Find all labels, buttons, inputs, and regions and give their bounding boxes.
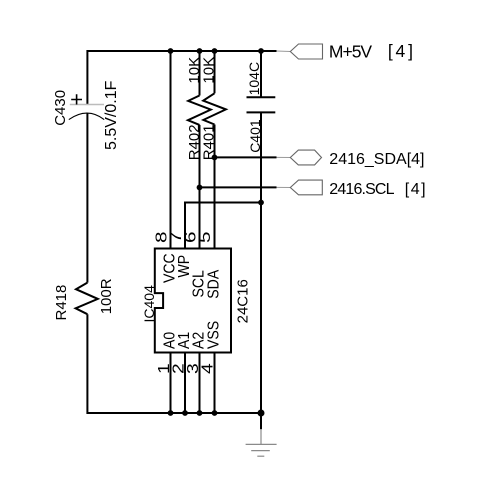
wire: IC pin2 A1 to bottom rail [184,353,186,414]
junction node SDA at R401 bottom [212,155,218,161]
svg-text:4: 4 [198,363,216,374]
grey lead wire to 2416.SCL tag [277,186,291,188]
svg-text:[4]: [4] [388,41,416,61]
wire: left vertical upper + top rail [87,51,276,104]
svg-text:2416.SCL: 2416.SCL [329,181,394,198]
wire: pin8 VCC vertical to top rail [170,51,172,249]
junction bottom rail pin4 [212,410,218,416]
port tag 2416_SDA (hexagon) [290,150,321,165]
wire: IC pin3 A2 to bottom rail [199,353,201,414]
wire: pin5 SDA vertical upper (rail to R401) [214,51,216,93]
capacitor C430 plus sign [71,94,82,104]
svg-text:C430: C430 [52,90,69,126]
junction bottom rail pin1 [168,410,174,416]
junction node SCL at R402 bottom [197,185,203,191]
port tag M+5V (pentagon) [290,44,322,59]
svg-text:104C: 104C [246,62,262,95]
capacitor C430 curved plate [69,113,104,120]
svg-text:5.5V/0.1F: 5.5V/0.1F [103,80,120,150]
wire: IC pin1 A0 to bottom rail [170,353,172,414]
junction bottom rail pin3 [197,410,203,416]
wire: SCL horizontal [200,186,277,188]
capacitor C401 plates [247,97,276,112]
junction on top rail at R402 [197,48,203,54]
svg-text:10K: 10K [201,57,218,84]
wire: C401/ground vertical lower [260,112,262,429]
wire: pin7 WP up and right to ground net [185,203,261,249]
port tag 2416.SCL (pentagon) [290,180,322,195]
wire: left vertical middle (below C430, above R418) [86,113,88,282]
junction on top rail at VCC pin8 [168,48,174,54]
svg-text:2416_SDA[4]: 2416_SDA[4] [329,151,424,168]
svg-text:R418: R418 [53,285,70,321]
wire: pin5 SDA vertical lower (R401 to IC) [214,125,216,249]
svg-text:[4]: [4] [405,181,427,198]
wire: C401 vertical upper (rail to plate) [260,51,262,97]
capacitor C430 straight plate (grey) [70,104,104,106]
svg-text:IC404: IC404 [141,285,157,323]
wire: IC pin4 VSS to bottom rail [214,353,216,414]
junction ground node [258,410,265,417]
svg-text:SDA: SDA [205,269,223,299]
svg-text:24C16: 24C16 [234,279,251,323]
svg-text:VSS: VSS [205,321,223,349]
resistor R402 zigzag [188,96,211,125]
wire: pin6 SCL vertical upper (rail to R402) [199,51,201,96]
svg-text:C401: C401 [247,119,263,153]
resistor R418 zigzag [76,283,98,315]
wire: left vertical lower + bottom rail [87,314,261,413]
wire: SDA horizontal [215,156,277,158]
grey lead wire to 2416_SDA tag [277,156,291,158]
op IC U404 box: IC404 24C16 EEPROM body with left notch [155,249,231,353]
junction bottom rail pin2 [182,410,188,416]
svg-text:R401: R401 [201,124,218,160]
junction node WP to ground vertical [258,200,264,206]
ground symbol [246,429,277,456]
grey lead wire to M+5V tag [277,50,291,53]
resistor R401 zigzag [203,93,226,124]
svg-text:5: 5 [195,231,213,243]
junction on top rail at R401 [212,48,218,54]
wire: pin6 SCL vertical lower (R402 to IC) [199,125,201,249]
svg-text:100R: 100R [98,278,115,314]
svg-text:M+5V: M+5V [329,42,373,62]
junction on top rail at C401 [258,48,264,54]
